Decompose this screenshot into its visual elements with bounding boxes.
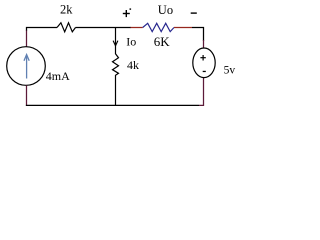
- voltage source V1 ellipse: [193, 48, 215, 78]
- voltage source V1 plus sign: [200, 55, 205, 61]
- stray dot mark: [130, 8, 132, 9]
- current Io arrowhead: [113, 41, 118, 46]
- wire right vertical maroon above source: [203, 40, 205, 48]
- svg-text:Io: Io: [126, 35, 136, 49]
- svg-text:4k: 4k: [127, 58, 139, 72]
- current source I1 arrow: [24, 55, 29, 79]
- wire red lead right of 6K: [174, 27, 192, 29]
- node A junction branch: [115, 27, 117, 46]
- wire top-left corner black segment: [27, 28, 58, 32]
- svg-text:4mA: 4mA: [46, 69, 70, 83]
- wire bottom-right maroon corner: [199, 78, 204, 105]
- svg-text:Uo: Uo: [158, 3, 173, 17]
- resistor R3 4k vertical zigzag: [113, 46, 119, 106]
- wire left vertical maroon into current source: [26, 31, 28, 48]
- voltage Uo plus sign: [123, 10, 130, 17]
- current source I1 circle: [7, 47, 46, 86]
- wire bottom horizontal: [26, 104, 199, 106]
- voltage Uo minus sign: [191, 12, 197, 13]
- wire top middle black segment: [76, 27, 132, 29]
- resistor R1 2k zigzag: [57, 23, 76, 32]
- resistor R2 6K zigzag: [143, 23, 174, 31]
- wire top-right corner black segment: [192, 28, 204, 42]
- svg-text:2k: 2k: [60, 3, 73, 17]
- voltage source V1 minus sign: [203, 71, 206, 72]
- svg-text:5v: 5v: [224, 64, 236, 76]
- wire below current source maroon: [26, 85, 28, 106]
- svg-text:6K: 6K: [154, 34, 171, 49]
- wire red lead left of 6K: [131, 27, 143, 29]
